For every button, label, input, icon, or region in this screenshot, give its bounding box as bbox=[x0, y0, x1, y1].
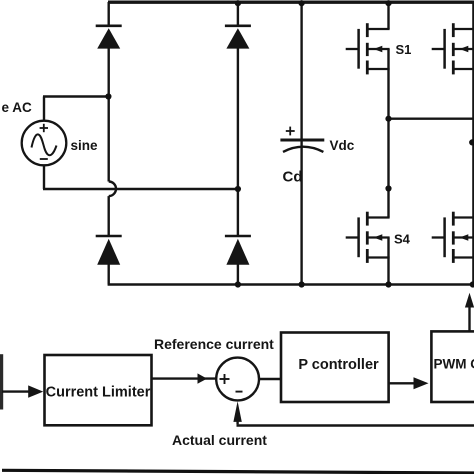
svg-text:Reference current: Reference current bbox=[154, 336, 274, 352]
svg-text:sine: sine bbox=[71, 138, 99, 153]
svg-text:e AC: e AC bbox=[2, 100, 33, 115]
svg-text:P controller: P controller bbox=[298, 357, 379, 373]
svg-text:S4: S4 bbox=[394, 232, 411, 247]
svg-text:S1: S1 bbox=[396, 42, 412, 57]
svg-text:Vdc: Vdc bbox=[330, 138, 355, 153]
svg-text:Current Limiter: Current Limiter bbox=[46, 385, 151, 401]
svg-text:PWM Generator: PWM Generator bbox=[434, 357, 474, 372]
svg-text:Actual current: Actual current bbox=[172, 432, 267, 448]
svg-text:Cd: Cd bbox=[283, 169, 303, 186]
